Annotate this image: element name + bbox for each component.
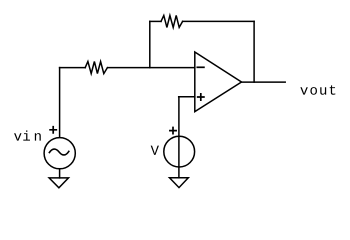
wire feedback top left segment [150,20,161,22]
op-amp minus label [197,66,204,68]
sine symbol inside vin [49,149,68,155]
plus polarity mark of V [170,128,176,134]
voltage source V circle [164,136,195,167]
op-amp plus label [198,94,204,100]
label V [151,146,159,155]
wire plus input vertical through source [178,97,180,178]
resistor R2 (feedback) [161,15,183,27]
wire input right segment to op-amp [108,67,195,69]
resistor R1 (input) [85,62,107,74]
wire feedback top right segment [183,20,255,22]
wire plus input horizontal [179,96,195,98]
wire vin vertical up [59,68,61,138]
plus polarity mark of vin [50,127,56,133]
ground under V [170,178,189,188]
wire output [242,81,286,83]
label vout [300,85,335,94]
wire feedback left vertical [149,21,151,67]
wire feedback right vertical [253,21,255,82]
op-amp U1 triangle [195,52,242,112]
ground under vin [49,178,68,188]
label vin [14,130,41,140]
source vin circle [44,138,75,169]
wire input left segment [60,67,86,69]
wire vin to ground [59,169,61,178]
